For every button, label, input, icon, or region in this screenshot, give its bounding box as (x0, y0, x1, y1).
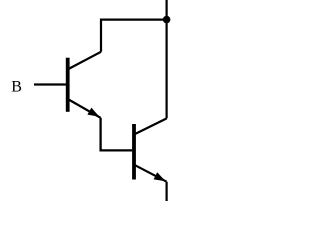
wire: Q2 emitter down to edge (166, 182, 168, 201)
transistor Q1 (66, 52, 101, 118)
wire: Q1 emitter down and right to Q2 base (101, 118, 133, 151)
wire: base input B to Q1 base (34, 83, 67, 85)
wire: Q1 collector up and right to node (101, 20, 167, 52)
junction dot (163, 16, 171, 24)
transistor Q2 (132, 118, 167, 181)
svg-text:B: B (11, 78, 22, 95)
wire: vertical rail through node down to Q2 collector (166, 0, 168, 118)
